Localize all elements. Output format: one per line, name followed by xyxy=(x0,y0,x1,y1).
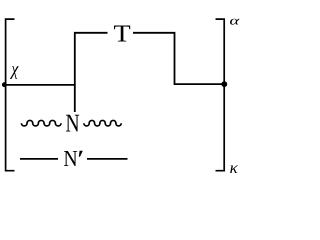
N-prime right line xyxy=(87,158,128,160)
wire from chi node to center vertical xyxy=(4,84,75,86)
right bracket xyxy=(216,19,225,171)
node right junction dot xyxy=(221,81,227,87)
squiggle wavy line right of N xyxy=(84,120,121,126)
squiggle wavy line left of N xyxy=(21,120,61,126)
label chi xyxy=(10,66,19,79)
label N of N-prime xyxy=(64,151,77,166)
prime mark of N-prime xyxy=(79,151,83,157)
node chi junction dot xyxy=(2,82,7,87)
wire center vertical with corner toward T xyxy=(75,33,108,112)
label N xyxy=(66,115,79,132)
label T xyxy=(114,26,130,42)
label kappa xyxy=(230,165,238,173)
N-prime left line xyxy=(20,158,58,160)
left bracket xyxy=(6,19,15,171)
wire from T right then down to right junction dot xyxy=(133,33,224,84)
label alpha xyxy=(230,19,240,25)
